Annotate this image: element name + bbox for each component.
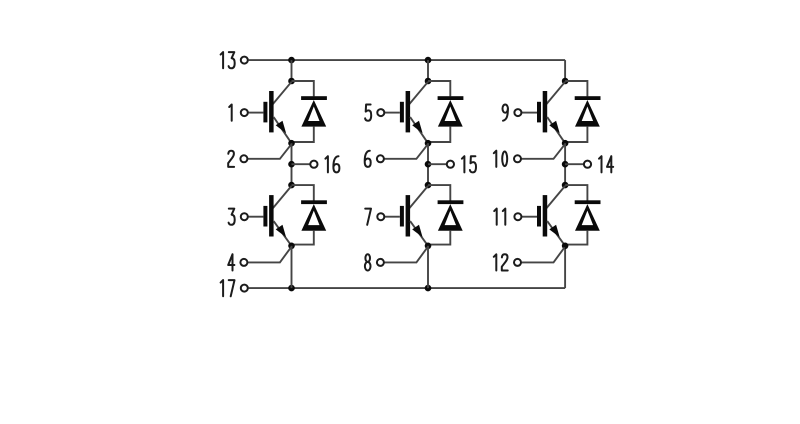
- label 14: [599, 156, 613, 172]
- wire pin 2 emitter lead: [248, 145, 291, 159]
- wire Q1 collector drop: [291, 60, 293, 81]
- node Q5 emitter junction: [562, 140, 569, 147]
- wire pin 12 emitter lead: [522, 247, 565, 262]
- transistor Q4 (IGBT): [400, 186, 428, 246]
- wire D5 anode link: [565, 127, 587, 142]
- terminal pin 2: [240, 155, 247, 162]
- node phase output junction: [562, 161, 569, 168]
- label 1: [229, 105, 232, 121]
- diode D2 (freewheel): [301, 200, 327, 230]
- wire D1 anode link: [292, 127, 314, 142]
- terminal pin 6: [377, 155, 384, 162]
- node Q6 emitter junction: [562, 243, 569, 250]
- wire bottom rail rise to right leg: [564, 246, 566, 288]
- wire D4 cathode link: [428, 185, 450, 200]
- wire pin 10 emitter lead: [522, 145, 565, 159]
- wire Q4 gate lead: [385, 216, 400, 218]
- wire phase link upper-lower: [564, 143, 566, 185]
- transistor Q3 (IGBT): [400, 82, 428, 143]
- label 3: [229, 209, 235, 225]
- wire Q1 gate lead: [248, 112, 263, 114]
- terminal pin 12: [514, 259, 521, 266]
- wire Q5 gate lead: [522, 112, 537, 114]
- node bottom rail / leg 2 junction: [425, 285, 432, 292]
- node Q1 collector junction: [288, 78, 295, 85]
- terminal pin 4: [240, 259, 247, 266]
- wire lower emitter to bottom rail: [291, 246, 293, 288]
- node Q2 collector junction: [288, 182, 295, 189]
- label 9: [503, 105, 508, 121]
- wire D4 anode link: [428, 231, 450, 245]
- diode D3 (freewheel): [438, 96, 464, 126]
- wire D2 anode link: [292, 231, 314, 245]
- terminal pin 1: [241, 109, 248, 116]
- node Q5 collector junction: [562, 78, 569, 85]
- terminal pin 3: [241, 213, 248, 220]
- terminal pin 9: [514, 109, 521, 116]
- transistor Q6 (IGBT): [537, 186, 565, 246]
- wire Q3 gate lead: [385, 112, 400, 114]
- terminal pin 17: [241, 285, 248, 292]
- node top rail / leg 1 junction: [288, 57, 295, 64]
- terminal pin 8: [377, 259, 384, 266]
- wire pin 14 phase lead: [565, 163, 583, 165]
- terminal pin 5: [377, 109, 384, 116]
- wire D2 cathode link: [292, 185, 314, 200]
- wire D1 cathode link: [292, 81, 314, 96]
- label 13: [221, 52, 235, 68]
- wire D5 cathode link: [565, 81, 587, 96]
- label 5: [365, 105, 371, 121]
- label 6: [365, 151, 371, 167]
- wire phase link upper-lower: [291, 143, 293, 185]
- label 17: [221, 280, 235, 296]
- node Q4 emitter junction: [425, 243, 432, 250]
- terminal pin 15: [447, 161, 454, 168]
- node Q4 collector junction: [425, 182, 432, 189]
- terminal pin 14: [584, 161, 591, 168]
- node Q6 collector junction: [562, 182, 569, 189]
- node top rail / leg 2 junction: [425, 57, 432, 64]
- node Q2 emitter junction: [288, 243, 295, 250]
- terminal pin 11: [514, 213, 521, 220]
- label 4: [228, 254, 234, 270]
- wire top rail drop to right leg: [564, 60, 566, 81]
- node Q3 collector junction: [425, 78, 432, 85]
- wire Q2 gate lead: [248, 216, 263, 218]
- wire top rail (pin 13 bus): [249, 59, 565, 61]
- diode D4 (freewheel): [438, 200, 464, 230]
- wire pin 6 emitter lead: [384, 145, 427, 159]
- node phase output junction: [288, 161, 295, 168]
- transistor Q1 (IGBT): [263, 82, 291, 143]
- label 8: [365, 254, 371, 270]
- wire D6 anode link: [565, 231, 587, 245]
- wire D3 anode link: [428, 127, 450, 142]
- label 16: [325, 156, 339, 172]
- wire pin 16 phase lead: [292, 163, 310, 165]
- node Q1 emitter junction: [288, 140, 295, 147]
- node Q3 emitter junction: [425, 140, 432, 147]
- terminal pin 7: [377, 213, 384, 220]
- terminal pin 16: [310, 161, 317, 168]
- wire phase link upper-lower: [427, 143, 429, 185]
- node bottom rail / leg 1 junction: [288, 285, 295, 292]
- transistor Q2 (IGBT): [263, 186, 291, 246]
- label 10: [494, 151, 507, 167]
- wire D6 cathode link: [565, 185, 587, 200]
- wire Q3 collector drop: [427, 60, 429, 81]
- wire lower emitter to bottom rail: [427, 246, 429, 288]
- label 2: [228, 151, 234, 167]
- diode D5 (freewheel): [575, 96, 601, 126]
- terminal pin 10: [514, 155, 521, 162]
- node phase output junction: [425, 161, 432, 168]
- diode D1 (freewheel): [301, 96, 327, 126]
- wire Q6 gate lead: [522, 216, 537, 218]
- label 12: [494, 254, 508, 270]
- label 15: [462, 156, 476, 172]
- wire pin 8 emitter lead: [384, 247, 427, 262]
- transistor Q5 (IGBT): [537, 82, 565, 143]
- diode D6 (freewheel): [575, 200, 601, 230]
- label 7: [365, 209, 371, 225]
- wire bottom rail (pin 17 bus): [249, 287, 565, 289]
- wire D3 cathode link: [428, 81, 450, 96]
- terminal pin 13: [241, 57, 248, 64]
- label 11: [494, 209, 505, 225]
- wire pin 4 emitter lead: [248, 247, 291, 262]
- wire pin 15 phase lead: [428, 163, 446, 165]
